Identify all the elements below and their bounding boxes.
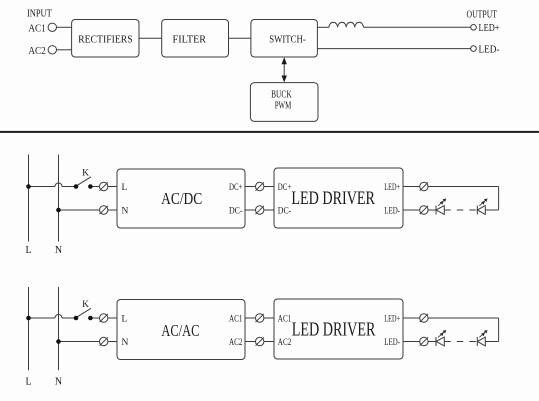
svg-text:DC-: DC-	[278, 205, 292, 215]
svg-text:K: K	[82, 300, 89, 310]
svg-text:AC/AC: AC/AC	[161, 321, 199, 340]
svg-text:N: N	[122, 338, 129, 348]
svg-text:N: N	[55, 377, 62, 388]
svg-text:L: L	[122, 314, 128, 324]
svg-text:L: L	[122, 183, 128, 193]
svg-text:INPUT: INPUT	[27, 7, 52, 19]
svg-text:LED+: LED+	[384, 313, 400, 323]
svg-text:AC2: AC2	[28, 45, 45, 57]
svg-text:LED-: LED-	[479, 43, 500, 55]
svg-text:L: L	[25, 245, 31, 256]
svg-text:AC2: AC2	[278, 337, 292, 347]
svg-text:K: K	[82, 168, 89, 178]
svg-text:RECTIFIERS: RECTIFIERS	[78, 34, 133, 46]
svg-text:L: L	[25, 377, 31, 388]
svg-text:LED+: LED+	[384, 182, 400, 192]
svg-text:LED-: LED-	[384, 205, 400, 215]
svg-text:AC1: AC1	[28, 22, 45, 34]
svg-text:DC-: DC-	[229, 205, 243, 215]
svg-text:AC/DC: AC/DC	[161, 189, 202, 208]
svg-text:AC1: AC1	[278, 313, 292, 323]
svg-text:LED+: LED+	[479, 22, 500, 34]
svg-text:LED DRIVER: LED DRIVER	[291, 188, 375, 209]
svg-text:N: N	[55, 245, 62, 256]
svg-text:LED DRIVER: LED DRIVER	[292, 320, 376, 341]
svg-text:DC+: DC+	[278, 182, 292, 192]
svg-text:AC2: AC2	[229, 337, 243, 347]
svg-text:OUTPUT: OUTPUT	[467, 8, 498, 20]
svg-text:FILTER: FILTER	[173, 34, 207, 46]
svg-text:SWITCH-: SWITCH-	[269, 34, 306, 46]
svg-text:DC+: DC+	[229, 182, 243, 192]
svg-text:AC1: AC1	[229, 313, 243, 323]
svg-text:PWM: PWM	[275, 99, 292, 111]
svg-text:N: N	[122, 206, 129, 216]
svg-text:LED-: LED-	[384, 337, 400, 347]
